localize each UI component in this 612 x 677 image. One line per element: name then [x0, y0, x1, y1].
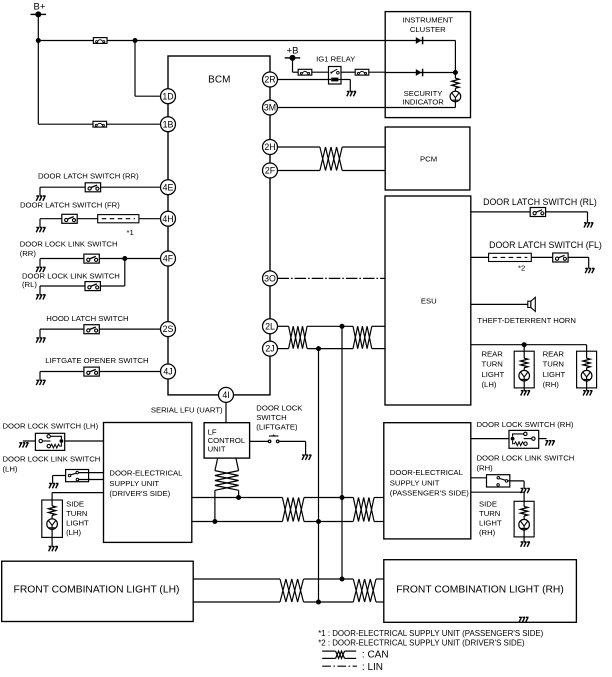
svg-text:1D: 1D — [162, 91, 173, 101]
svg-text:TURN: TURN — [479, 509, 500, 518]
svg-text:SIDE: SIDE — [479, 499, 497, 508]
svg-text:DOOR LOCK LINK SWITCH: DOOR LOCK LINK SWITCH — [22, 271, 120, 280]
svg-text:(LH): (LH) — [66, 528, 81, 537]
svg-text:DOOR LATCH SWITCH (RL): DOOR LATCH SWITCH (RL) — [483, 197, 597, 207]
svg-text:HOOD LATCH SWITCH: HOOD LATCH SWITCH — [46, 314, 128, 323]
svg-text:2L: 2L — [265, 321, 275, 331]
svg-text:DOOR LATCH SWITCH (FR): DOOR LATCH SWITCH (FR) — [20, 201, 120, 210]
svg-text:2J: 2J — [265, 344, 274, 354]
svg-text:UNIT: UNIT — [208, 445, 226, 454]
svg-text:(RL): (RL) — [22, 280, 37, 289]
svg-text:*2: *2 — [518, 263, 525, 272]
svg-text:4J: 4J — [163, 367, 172, 377]
svg-text:(PASSENGER'S SIDE): (PASSENGER'S SIDE) — [390, 488, 470, 497]
svg-text:PCM: PCM — [420, 154, 437, 163]
svg-text:(LIFTGATE): (LIFTGATE) — [256, 423, 298, 432]
svg-text:TURN: TURN — [543, 360, 564, 369]
svg-text:*1: *1 — [127, 228, 134, 237]
svg-text:4F: 4F — [163, 254, 174, 264]
svg-text:*1 : DOOR-ELECTRICAL SUPPLY UN: *1 : DOOR-ELECTRICAL SUPPLY UNIT (PASSEN… — [318, 629, 543, 638]
svg-text:TURN: TURN — [482, 360, 503, 369]
svg-text:: CAN: : CAN — [362, 650, 389, 661]
svg-text:4H: 4H — [162, 214, 173, 224]
svg-text:(RH): (RH) — [477, 464, 494, 473]
svg-text:2R: 2R — [264, 75, 275, 85]
svg-text:B+: B+ — [34, 1, 46, 12]
svg-text:DOOR LATCH SWITCH (RR): DOOR LATCH SWITCH (RR) — [38, 172, 139, 181]
svg-text:1B: 1B — [163, 119, 174, 129]
svg-text:LIGHT: LIGHT — [543, 370, 566, 379]
svg-text:(RH): (RH) — [543, 380, 560, 389]
svg-text:(LH): (LH) — [482, 380, 497, 389]
svg-text:DOOR LOCK: DOOR LOCK — [256, 404, 303, 413]
svg-text:LIGHT: LIGHT — [482, 370, 505, 379]
svg-text:*2 : DOOR-ELECTRICAL SUPPLY UN: *2 : DOOR-ELECTRICAL SUPPLY UNIT (DRIVER… — [318, 639, 525, 648]
svg-text:4I: 4I — [222, 390, 229, 400]
svg-text:LF: LF — [208, 427, 217, 436]
svg-text:(DRIVER'S SIDE): (DRIVER'S SIDE) — [109, 489, 170, 498]
svg-text:SWITCH: SWITCH — [256, 413, 286, 422]
svg-text:DOOR LOCK LINK SWITCH: DOOR LOCK LINK SWITCH — [3, 455, 101, 464]
svg-text:DOOR-ELECTRICAL: DOOR-ELECTRICAL — [390, 468, 464, 477]
svg-text:FRONT COMBINATION LIGHT (LH): FRONT COMBINATION LIGHT (LH) — [14, 584, 180, 595]
svg-text:: LIN: : LIN — [362, 662, 383, 672]
svg-text:LIFTGATE OPENER SWITCH: LIFTGATE OPENER SWITCH — [45, 356, 148, 365]
svg-text:THEFT-DETERRENT HORN: THEFT-DETERRENT HORN — [477, 316, 576, 325]
svg-text:DOOR-ELECTRICAL: DOOR-ELECTRICAL — [109, 469, 183, 478]
svg-text:3O: 3O — [264, 274, 276, 284]
svg-text:CLUSTER: CLUSTER — [410, 25, 446, 34]
svg-text:BCM: BCM — [208, 74, 230, 85]
svg-text:DOOR LOCK LINK SWITCH: DOOR LOCK LINK SWITCH — [20, 239, 118, 248]
svg-text:FRONT COMBINATION LIGHT (RH): FRONT COMBINATION LIGHT (RH) — [396, 585, 564, 596]
svg-text:DOOR LOCK SWITCH (RH): DOOR LOCK SWITCH (RH) — [477, 420, 574, 429]
svg-text:IG1 RELAY: IG1 RELAY — [316, 55, 355, 64]
svg-text:SECURITY: SECURITY — [404, 89, 443, 98]
svg-text:TURN: TURN — [66, 509, 87, 518]
svg-text:SUPPLY UNIT: SUPPLY UNIT — [109, 479, 159, 488]
svg-text:SERIAL LFU (UART): SERIAL LFU (UART) — [151, 405, 223, 414]
svg-text:3M: 3M — [264, 103, 276, 113]
svg-text:SIDE: SIDE — [66, 500, 84, 509]
svg-text:REAR: REAR — [482, 349, 504, 358]
svg-text:2S: 2S — [163, 324, 174, 334]
svg-text:REAR: REAR — [543, 349, 565, 358]
svg-text:LIGHT: LIGHT — [66, 519, 89, 528]
svg-text:DOOR LOCK LINK SWITCH: DOOR LOCK LINK SWITCH — [477, 454, 575, 463]
svg-text:ESU: ESU — [421, 296, 437, 305]
svg-text:DOOR LOCK SWITCH (LH): DOOR LOCK SWITCH (LH) — [3, 421, 99, 430]
svg-text:DOOR LATCH SWITCH (FL): DOOR LATCH SWITCH (FL) — [489, 240, 602, 250]
svg-text:(LH): (LH) — [3, 465, 18, 474]
svg-text:4E: 4E — [163, 182, 174, 192]
svg-text:INDICATOR: INDICATOR — [402, 98, 444, 107]
svg-text:SUPPLY UNIT: SUPPLY UNIT — [390, 479, 440, 488]
svg-text:INSTRUMENT: INSTRUMENT — [403, 15, 454, 24]
svg-text:2F: 2F — [265, 166, 276, 176]
svg-text:+B: +B — [287, 45, 299, 56]
svg-text:2H: 2H — [264, 142, 275, 152]
svg-text:LIGHT: LIGHT — [479, 519, 502, 528]
svg-text:(RR): (RR) — [20, 249, 37, 258]
svg-text:(RH): (RH) — [479, 528, 496, 537]
